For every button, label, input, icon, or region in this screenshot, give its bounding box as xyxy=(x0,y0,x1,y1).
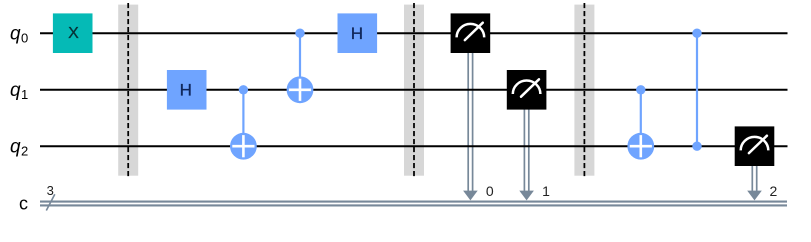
classical width slash xyxy=(46,194,55,210)
CZ gate (q0, q2) xyxy=(692,29,701,151)
measure M2 arrow to c2 xyxy=(747,166,762,201)
svg-text:2: 2 xyxy=(21,144,28,159)
svg-text:2: 2 xyxy=(770,183,778,199)
svg-text:H: H xyxy=(180,80,192,99)
measure M1 arrow to c1 xyxy=(519,109,534,200)
measure M1 (q1 -> c1) xyxy=(507,70,550,199)
barrier B1 xyxy=(118,3,138,177)
measure M0 arrow to c0 xyxy=(463,53,478,201)
measure M2 (q2 -> c2) xyxy=(735,126,778,199)
svg-text:q: q xyxy=(10,137,21,158)
qubit label q0 xyxy=(10,24,28,46)
wire q1 xyxy=(40,89,788,91)
CNOT CX2 (control q0, target q1) xyxy=(287,29,314,104)
wire q2 xyxy=(40,145,788,147)
barrier B2 xyxy=(404,3,424,177)
qubit label q2 xyxy=(10,137,28,159)
gate H (q1) xyxy=(167,70,207,110)
svg-text:1: 1 xyxy=(542,183,550,199)
svg-text:0: 0 xyxy=(486,183,494,199)
svg-text:0: 0 xyxy=(21,31,28,46)
gate X (q0) xyxy=(53,13,93,53)
svg-text:q: q xyxy=(10,80,21,101)
qubit label q1 xyxy=(10,80,28,102)
CNOT CX3 (control q1, target q2) xyxy=(627,85,654,160)
svg-text:q: q xyxy=(10,24,21,45)
svg-text:1: 1 xyxy=(21,87,28,102)
svg-text:c: c xyxy=(19,194,28,214)
wire q0 xyxy=(40,32,788,34)
classical wire c (double line) xyxy=(40,202,787,206)
svg-text:3: 3 xyxy=(47,183,54,198)
gate H (q0) xyxy=(338,13,378,53)
barrier B3 xyxy=(574,3,594,177)
CNOT CX1 (control q1, target q2) xyxy=(230,85,257,160)
svg-text:H: H xyxy=(351,24,363,43)
svg-text:X: X xyxy=(68,25,79,42)
measure M0 (q0 -> c0) xyxy=(451,13,494,199)
